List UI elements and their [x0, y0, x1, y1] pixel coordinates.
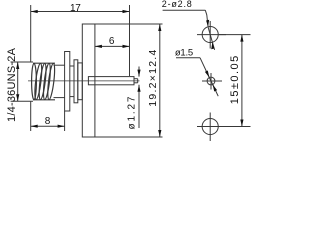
dimension 19.2x12.4	[95, 24, 163, 137]
dimension 15+-0.05	[219, 35, 251, 127]
center pin outer sleeve	[88, 77, 134, 85]
bottom mounting hole	[197, 113, 226, 142]
dimension o1.27	[137, 67, 140, 129]
leader o1.5	[176, 58, 218, 96]
thread	[32, 63, 56, 100]
svg-text:ø1.5: ø1.5	[175, 47, 193, 58]
svg-text:17: 17	[70, 3, 81, 14]
medium collar	[74, 60, 78, 103]
svg-text:2-ø2.8: 2-ø2.8	[162, 0, 192, 9]
thread callout dimension	[11, 62, 34, 101]
svg-text:6: 6	[109, 36, 115, 47]
leader 2-o2.8	[163, 10, 215, 50]
dimension 17	[31, 5, 130, 76]
svg-text:19.2×12.4: 19.2×12.4	[147, 50, 159, 107]
dimension 6	[95, 45, 130, 48]
section D	[78, 63, 83, 100]
flange plate	[82, 24, 95, 137]
svg-text:1/4-36UNS-2A: 1/4-36UNS-2A	[6, 47, 18, 122]
dimension 8	[31, 101, 65, 131]
center hole	[202, 73, 222, 90]
svg-text:ø1.27: ø1.27	[127, 96, 138, 129]
center pin inner conductor tip	[134, 79, 138, 83]
groove2	[70, 66, 74, 97]
axis centerline	[28, 80, 140, 82]
svg-text:8: 8	[45, 116, 51, 127]
relief groove stub	[54, 65, 65, 97]
tall collar	[65, 52, 70, 112]
top mounting hole	[197, 21, 226, 49]
